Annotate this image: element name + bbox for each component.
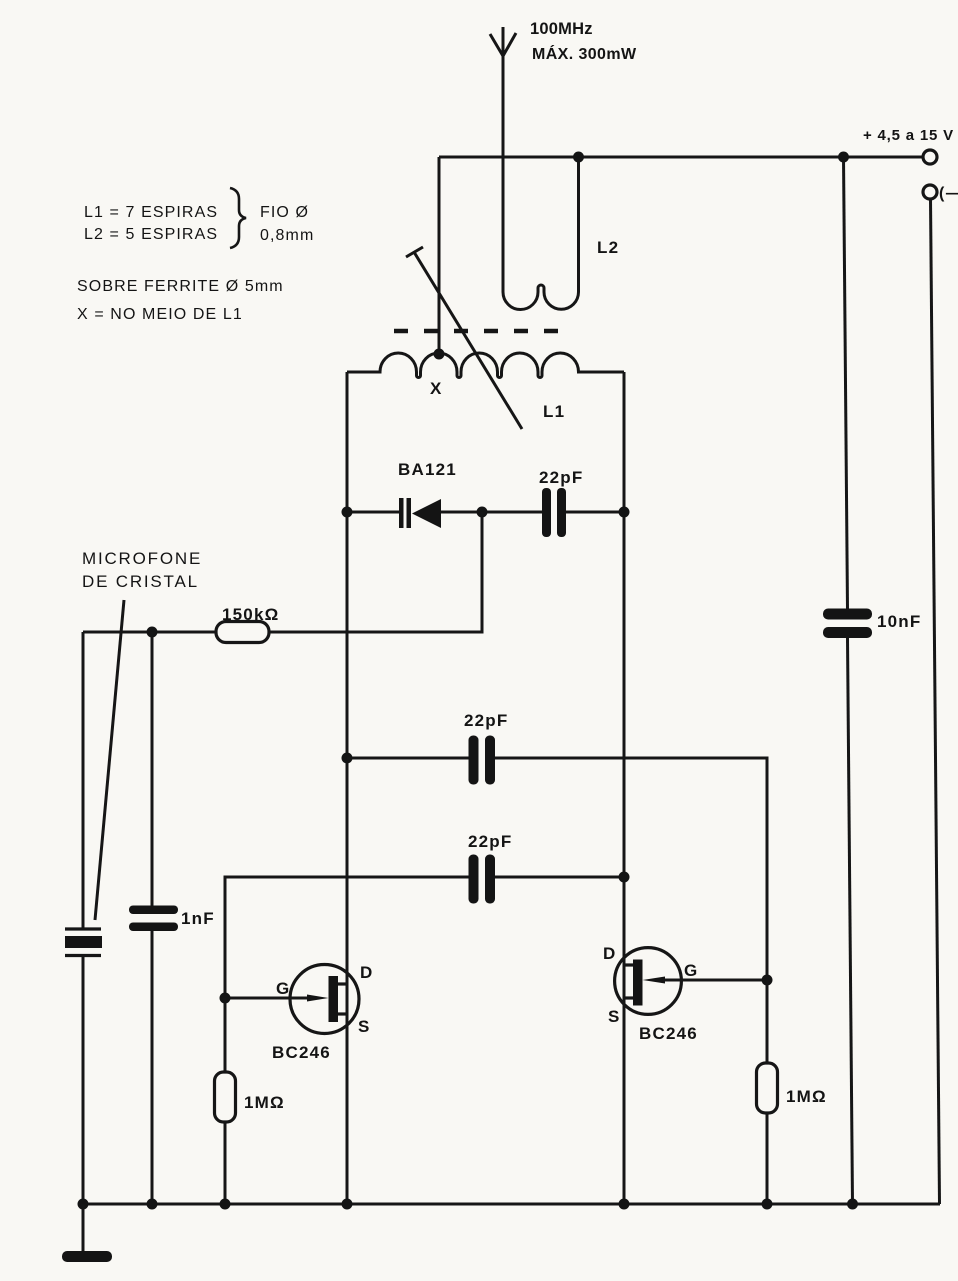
microphone crystal MIC — [65, 929, 102, 956]
svg-text:L2: L2 — [597, 238, 619, 257]
node rail R3 — [762, 1199, 773, 1210]
node rail left rail — [78, 1199, 89, 1210]
svg-text:1MΩ: 1MΩ — [786, 1087, 827, 1106]
svg-text:(—: (— — [939, 185, 958, 202]
capacitor C3 22pF (cross coupling right gate) — [347, 736, 767, 981]
terminal -V — [923, 185, 937, 199]
wire tank left vertical — [346, 372, 349, 1204]
node tank left / C3 junction — [342, 753, 353, 764]
node rail R2 — [220, 1199, 231, 1210]
wire +V top rail — [439, 156, 923, 159]
svg-text:1nF: 1nF — [181, 909, 215, 928]
svg-text:0,8mm: 0,8mm — [260, 227, 314, 244]
capacitor C1 22pF (tank) — [542, 488, 624, 537]
svg-text:1MΩ: 1MΩ — [244, 1093, 285, 1112]
svg-text:L1 = 7 ESPIRAS: L1 = 7 ESPIRAS — [84, 204, 218, 221]
resistor R1 150k — [216, 622, 269, 643]
svg-text:100MHz: 100MHz — [530, 20, 593, 38]
svg-text:SOBRE FERRITE Ø 5mm: SOBRE FERRITE Ø 5mm — [77, 278, 284, 295]
trimmer adjustment arrow — [406, 247, 522, 429]
svg-text:22pF: 22pF — [468, 832, 512, 851]
capacitor C5 10nF — [823, 157, 872, 1204]
node C4 right / drain junction — [619, 872, 630, 883]
svg-text:BC246: BC246 — [272, 1043, 331, 1062]
node tank right / cap junction — [619, 507, 630, 518]
svg-text:X: X — [430, 379, 443, 398]
node gate Q2 junction — [762, 975, 773, 986]
transistor Q1 BC246 (left FET) — [225, 965, 359, 1034]
wire mic to resistor — [83, 631, 216, 634]
svg-text:D: D — [360, 963, 373, 982]
svg-text:150kΩ: 150kΩ — [222, 605, 279, 624]
wire left rail lower — [82, 956, 85, 1205]
svg-text:S: S — [358, 1017, 371, 1036]
node rail Q1 source — [342, 1199, 353, 1210]
capacitor C2 1nF — [129, 632, 178, 1204]
svg-text:22pF: 22pF — [539, 468, 583, 487]
node X center tap junction — [434, 349, 445, 360]
svg-text:MICROFONE: MICROFONE — [82, 549, 202, 568]
node tank left / BA121 junction — [342, 507, 353, 518]
resistor R3 1M (right) — [757, 980, 778, 1204]
note brace — [230, 188, 246, 248]
node gate Q1 junction — [220, 993, 231, 1004]
resistor R2 1M (left) — [215, 998, 236, 1204]
terminal +V — [923, 150, 937, 164]
svg-text:S: S — [608, 1007, 621, 1026]
inductor L2 — [503, 157, 579, 310]
leader line microphone label — [95, 600, 124, 920]
svg-text:BC246: BC246 — [639, 1024, 698, 1043]
svg-text:G: G — [276, 979, 290, 998]
svg-text:FIO Ø: FIO Ø — [260, 204, 309, 221]
node rail Q2 drain line — [619, 1199, 630, 1210]
ferrite core coupling dashed line — [394, 329, 566, 334]
svg-text:DE CRISTAL: DE CRISTAL — [82, 572, 199, 591]
wire L1 center tap drop — [438, 157, 441, 354]
wire bottom ground rail — [83, 1203, 940, 1206]
svg-text:G: G — [684, 961, 698, 980]
svg-text:D: D — [603, 944, 616, 963]
svg-text:L2 = 5 ESPIRAS: L2 = 5 ESPIRAS — [84, 226, 218, 243]
transistor Q2 BC246 (right FET) — [615, 948, 767, 1015]
ground — [62, 1204, 112, 1262]
node rail 10nF — [847, 1199, 858, 1210]
wire right rail — [931, 199, 940, 1204]
svg-text:+ 4,5 a 15 V: + 4,5 a 15 V — [863, 127, 954, 144]
antenna ANT — [490, 27, 516, 292]
node varicap-cap junction — [477, 507, 488, 518]
svg-text:BA121: BA121 — [398, 460, 457, 479]
varicap diode BA121 — [347, 498, 542, 528]
node 1nF tap junction — [147, 627, 158, 638]
wire varicap feed drop — [269, 512, 482, 632]
svg-text:L1: L1 — [543, 402, 565, 421]
inductor L1 with tank frame top — [347, 353, 624, 378]
node 10nF top junction — [838, 152, 849, 163]
svg-text:MÁX. 300mW: MÁX. 300mW — [532, 44, 637, 63]
wire tank right vertical — [623, 372, 626, 1204]
svg-text:10nF: 10nF — [877, 612, 921, 631]
wire left rail upper — [82, 632, 85, 929]
node rail 1nF — [147, 1199, 158, 1210]
svg-text:22pF: 22pF — [464, 711, 508, 730]
svg-text:X = NO MEIO DE L1: X = NO MEIO DE L1 — [77, 306, 243, 323]
node L2 right leg junction — [573, 152, 584, 163]
capacitor C4 22pF (cross coupling left gate) — [225, 855, 624, 999]
